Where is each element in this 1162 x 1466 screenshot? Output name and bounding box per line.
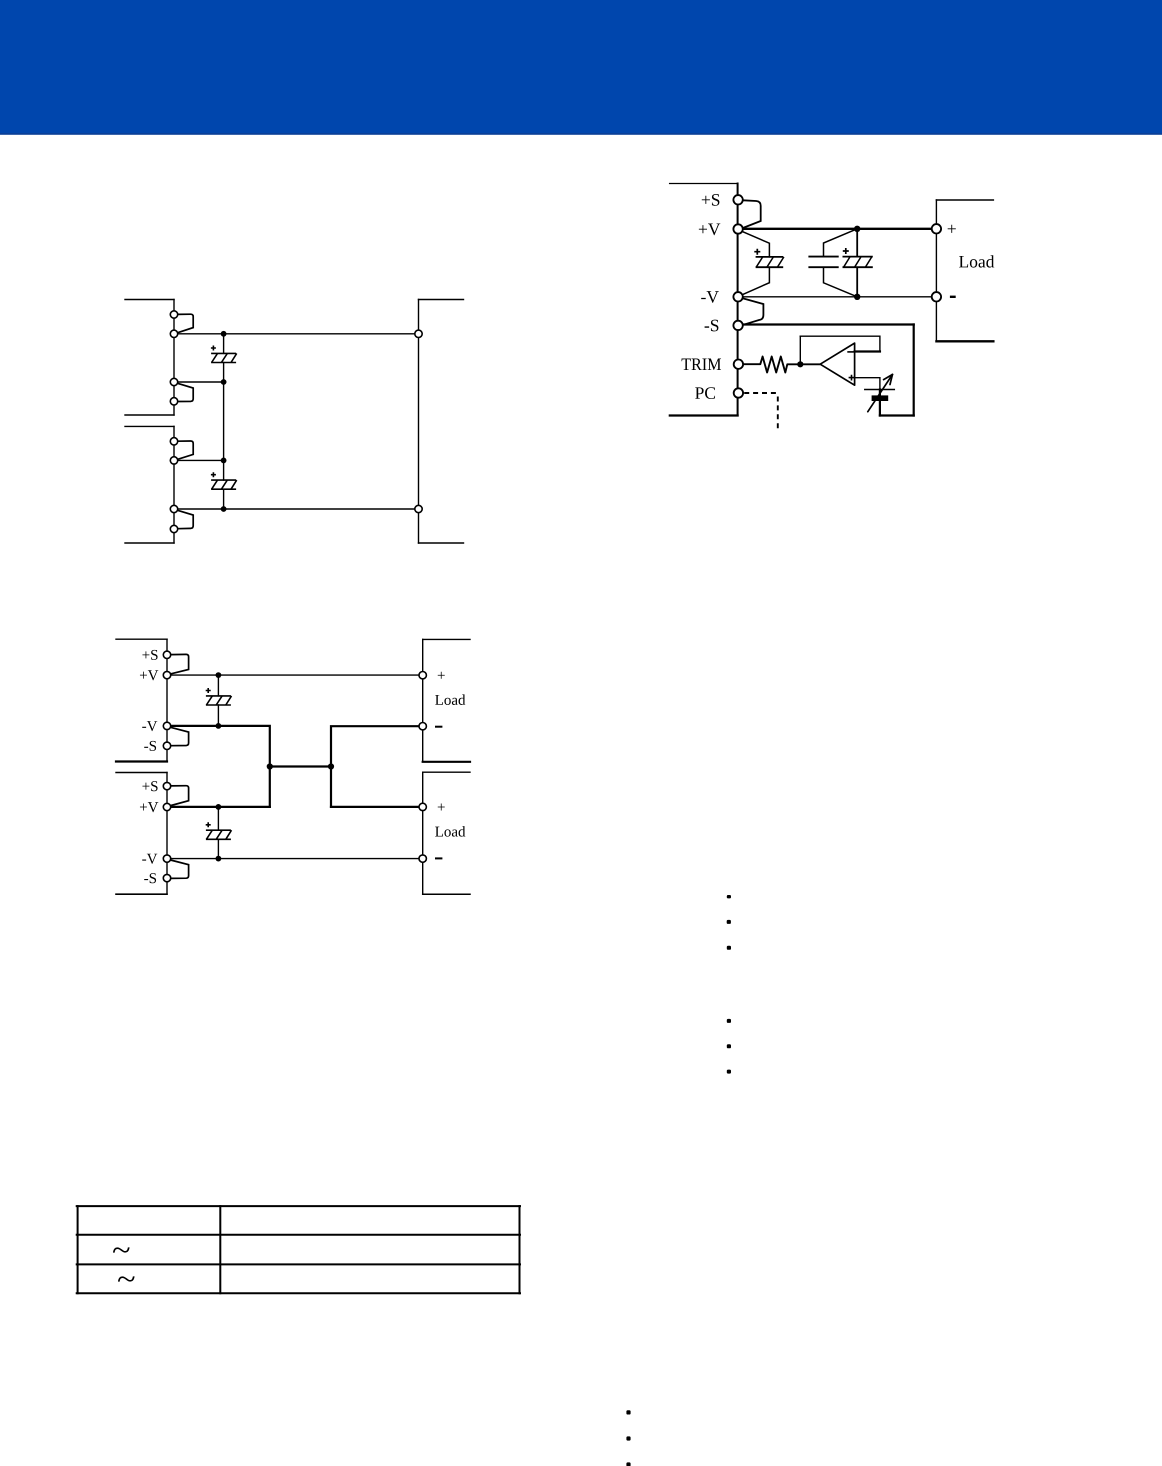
jumper +S2 to +V2 <box>177 441 193 459</box>
junction -V / caps <box>854 294 860 300</box>
wire +V A to load <box>170 674 419 676</box>
label PC <box>695 387 715 399</box>
label -V A <box>142 721 157 731</box>
capacitor C4 <box>206 822 232 839</box>
wire +V2 to bus <box>177 459 223 461</box>
capacitor C1 <box>211 346 237 363</box>
load terminal - <box>932 292 941 301</box>
wire from non-inverting input <box>855 378 880 390</box>
feedback box bottom wire (bold) <box>880 414 914 416</box>
wire +V to load (bold) <box>743 228 932 230</box>
cap A wire top <box>217 675 219 696</box>
load B bottom stub <box>423 893 470 895</box>
cap B wire bottom <box>217 839 219 858</box>
terminal -S2 <box>170 525 177 532</box>
feedback wire node to top <box>799 336 801 364</box>
PSU1 frame top wire <box>125 299 174 301</box>
potentiometer VR1 arrow <box>868 374 893 411</box>
bullet 2 <box>727 920 731 924</box>
bullet 1 <box>727 895 731 898</box>
feedback wire top run <box>800 336 880 351</box>
series link wire load B plus <box>331 806 419 808</box>
terminal TRIM <box>734 360 743 369</box>
PSU frame bottom wire (bold) <box>670 414 738 416</box>
label load plus <box>948 225 956 233</box>
label load A plus <box>438 672 445 679</box>
bus wire segment 2 <box>223 363 225 481</box>
terminal +V1 <box>170 330 177 337</box>
label TRIM <box>682 359 721 370</box>
bullet 3 <box>727 946 731 950</box>
load bottom stub wire <box>419 542 464 544</box>
terminal +V2 <box>170 457 177 464</box>
capacitor C5 <box>743 232 784 294</box>
capacitor C6 (ceramic) <box>808 229 857 297</box>
junction +V1/bus <box>221 331 227 337</box>
PSU left edge wire <box>737 184 739 416</box>
label +S A <box>142 650 157 660</box>
load A top stub <box>423 638 470 640</box>
load block edge wire <box>935 200 937 341</box>
jumper +S1 to +V1 <box>177 314 193 333</box>
bus wire segment 1 <box>223 334 225 354</box>
PSU2 frame bottom wire <box>125 542 174 544</box>
jumper -V2 to -S2 <box>177 510 193 528</box>
cap B wire top <box>217 807 219 830</box>
PSU1 frame bottom wire <box>125 414 174 416</box>
terminal -S <box>733 321 742 330</box>
load B block edge <box>422 772 424 894</box>
terminal +S <box>733 195 742 204</box>
potentiometer VR1 body <box>872 395 889 401</box>
label +V <box>699 224 720 236</box>
tilde row 2 <box>113 1247 130 1252</box>
label -S B <box>144 873 156 883</box>
wire -V B to load <box>170 858 419 860</box>
load A terminal - <box>419 723 426 730</box>
terminal +S2 <box>170 438 177 445</box>
bullet 8 <box>626 1436 630 1440</box>
terminal -V B <box>163 855 170 862</box>
jumper -V to -S (PSU-B) <box>170 860 188 878</box>
terminal -V2 <box>170 505 177 512</box>
junction series mid left <box>267 763 273 769</box>
label load B minus <box>435 857 442 859</box>
wire -V1 to bus <box>177 381 223 383</box>
label Load <box>959 255 994 267</box>
wire -V to load <box>743 296 932 298</box>
bus wire segment 3 <box>223 489 225 509</box>
label +V A <box>140 670 158 680</box>
feedback wire into inverting input (bold) <box>855 350 880 352</box>
terminal -V1 <box>170 378 177 385</box>
bullet 6 <box>727 1070 731 1074</box>
junction series mid right <box>328 763 334 769</box>
bullet 7 <box>626 1410 630 1414</box>
terminal -S A <box>163 742 170 749</box>
junction +V A / cap <box>216 672 222 678</box>
wire +V1 to load <box>177 333 415 335</box>
terminal -S1 <box>170 398 177 405</box>
load A block edge <box>422 639 424 761</box>
capacitor C3 <box>206 688 232 705</box>
series link wire +V B <box>171 806 270 808</box>
capacitor C7 <box>843 229 873 297</box>
tilde row 3 <box>118 1276 135 1281</box>
terminal +V B <box>163 803 170 810</box>
PSU frame top wire <box>670 183 738 185</box>
label +V B <box>140 802 158 812</box>
label Load B <box>435 826 465 837</box>
terminal +S1 <box>170 311 177 318</box>
load terminal + <box>415 330 422 337</box>
label -V <box>701 291 719 303</box>
load B terminal - <box>419 855 426 862</box>
junction +V B / cap <box>216 804 222 810</box>
potentiometer VR1 top bar <box>865 389 895 391</box>
series mid tie wire <box>270 765 331 767</box>
table grid <box>77 1206 520 1293</box>
header banner <box>0 0 1162 134</box>
load terminal + <box>932 224 941 233</box>
PSU-B frame top wire <box>116 772 167 774</box>
PSU2 frame top wire <box>125 425 174 427</box>
wire -S to feedback box (bold) <box>743 323 914 325</box>
load top stub wire <box>419 299 464 301</box>
junction +V / caps <box>854 226 860 232</box>
wire -V2 to load <box>177 508 415 510</box>
bullet 9 <box>626 1462 630 1466</box>
dashed wire from PC <box>744 393 778 429</box>
PSU-A frame bottom wire (bold) <box>116 760 167 762</box>
label +S <box>702 194 720 206</box>
load bottom stub wire (bold) <box>936 340 993 342</box>
bullet 5 <box>727 1044 731 1048</box>
PSU-A frame top wire <box>116 638 167 640</box>
feedback box right edge (bold) <box>913 325 915 416</box>
PSU1 left edge wire <box>173 300 175 416</box>
terminal +V A <box>163 671 170 678</box>
bullet 4 <box>727 1019 731 1023</box>
PSU2 left edge wire <box>173 426 175 543</box>
junction -V2/bus <box>221 506 227 512</box>
load B top stub <box>423 771 470 773</box>
terminal -V A <box>163 722 170 729</box>
load A terminal + <box>419 672 426 679</box>
terminal PC <box>734 388 743 397</box>
label -V B <box>142 854 157 864</box>
jumper -V to -S <box>743 298 763 324</box>
jumper -V1 to -S1 <box>177 383 193 401</box>
capacitor C2 <box>211 472 237 489</box>
junction -V B / cap <box>216 856 222 862</box>
load B terminal + <box>419 803 426 810</box>
terminal +S B <box>163 782 170 789</box>
label -S A <box>144 741 156 751</box>
label -S <box>705 320 719 332</box>
label +S B <box>142 781 157 791</box>
op-amp U1 <box>820 343 854 385</box>
label load B plus <box>438 804 445 811</box>
resistor R1 <box>744 357 821 373</box>
series link wire load A minus <box>331 726 419 807</box>
PSU-A left edge wire <box>166 639 168 761</box>
load A bottom stub (bold) <box>423 761 470 763</box>
jumper +S to +V <box>743 200 761 227</box>
label load minus <box>950 296 956 298</box>
terminal -V <box>733 292 742 301</box>
junction -V1/bus <box>221 379 227 385</box>
potentiometer VR1 wire below <box>879 390 881 416</box>
label load A minus <box>435 726 442 728</box>
load terminal - <box>415 505 422 512</box>
jumper +S to +V (PSU-A) <box>170 654 188 673</box>
load block edge wire <box>418 300 420 544</box>
label Load A <box>435 694 465 705</box>
PSU-B left edge wire <box>166 773 168 895</box>
PSU-B frame bottom wire <box>116 893 167 895</box>
terminal +V <box>733 224 742 233</box>
load top stub wire <box>936 199 993 201</box>
junction node A (op-amp input) <box>797 361 803 367</box>
series link wire -V A <box>171 726 270 807</box>
cap A wire bottom <box>217 705 219 726</box>
jumper -V to -S (PSU-A) <box>170 727 188 745</box>
junction -V A / cap <box>216 723 222 729</box>
junction +V2/bus <box>221 458 227 464</box>
jumper +S to +V (PSU-B) <box>170 786 188 806</box>
terminal +S A <box>163 651 170 658</box>
terminal -S B <box>163 874 170 881</box>
